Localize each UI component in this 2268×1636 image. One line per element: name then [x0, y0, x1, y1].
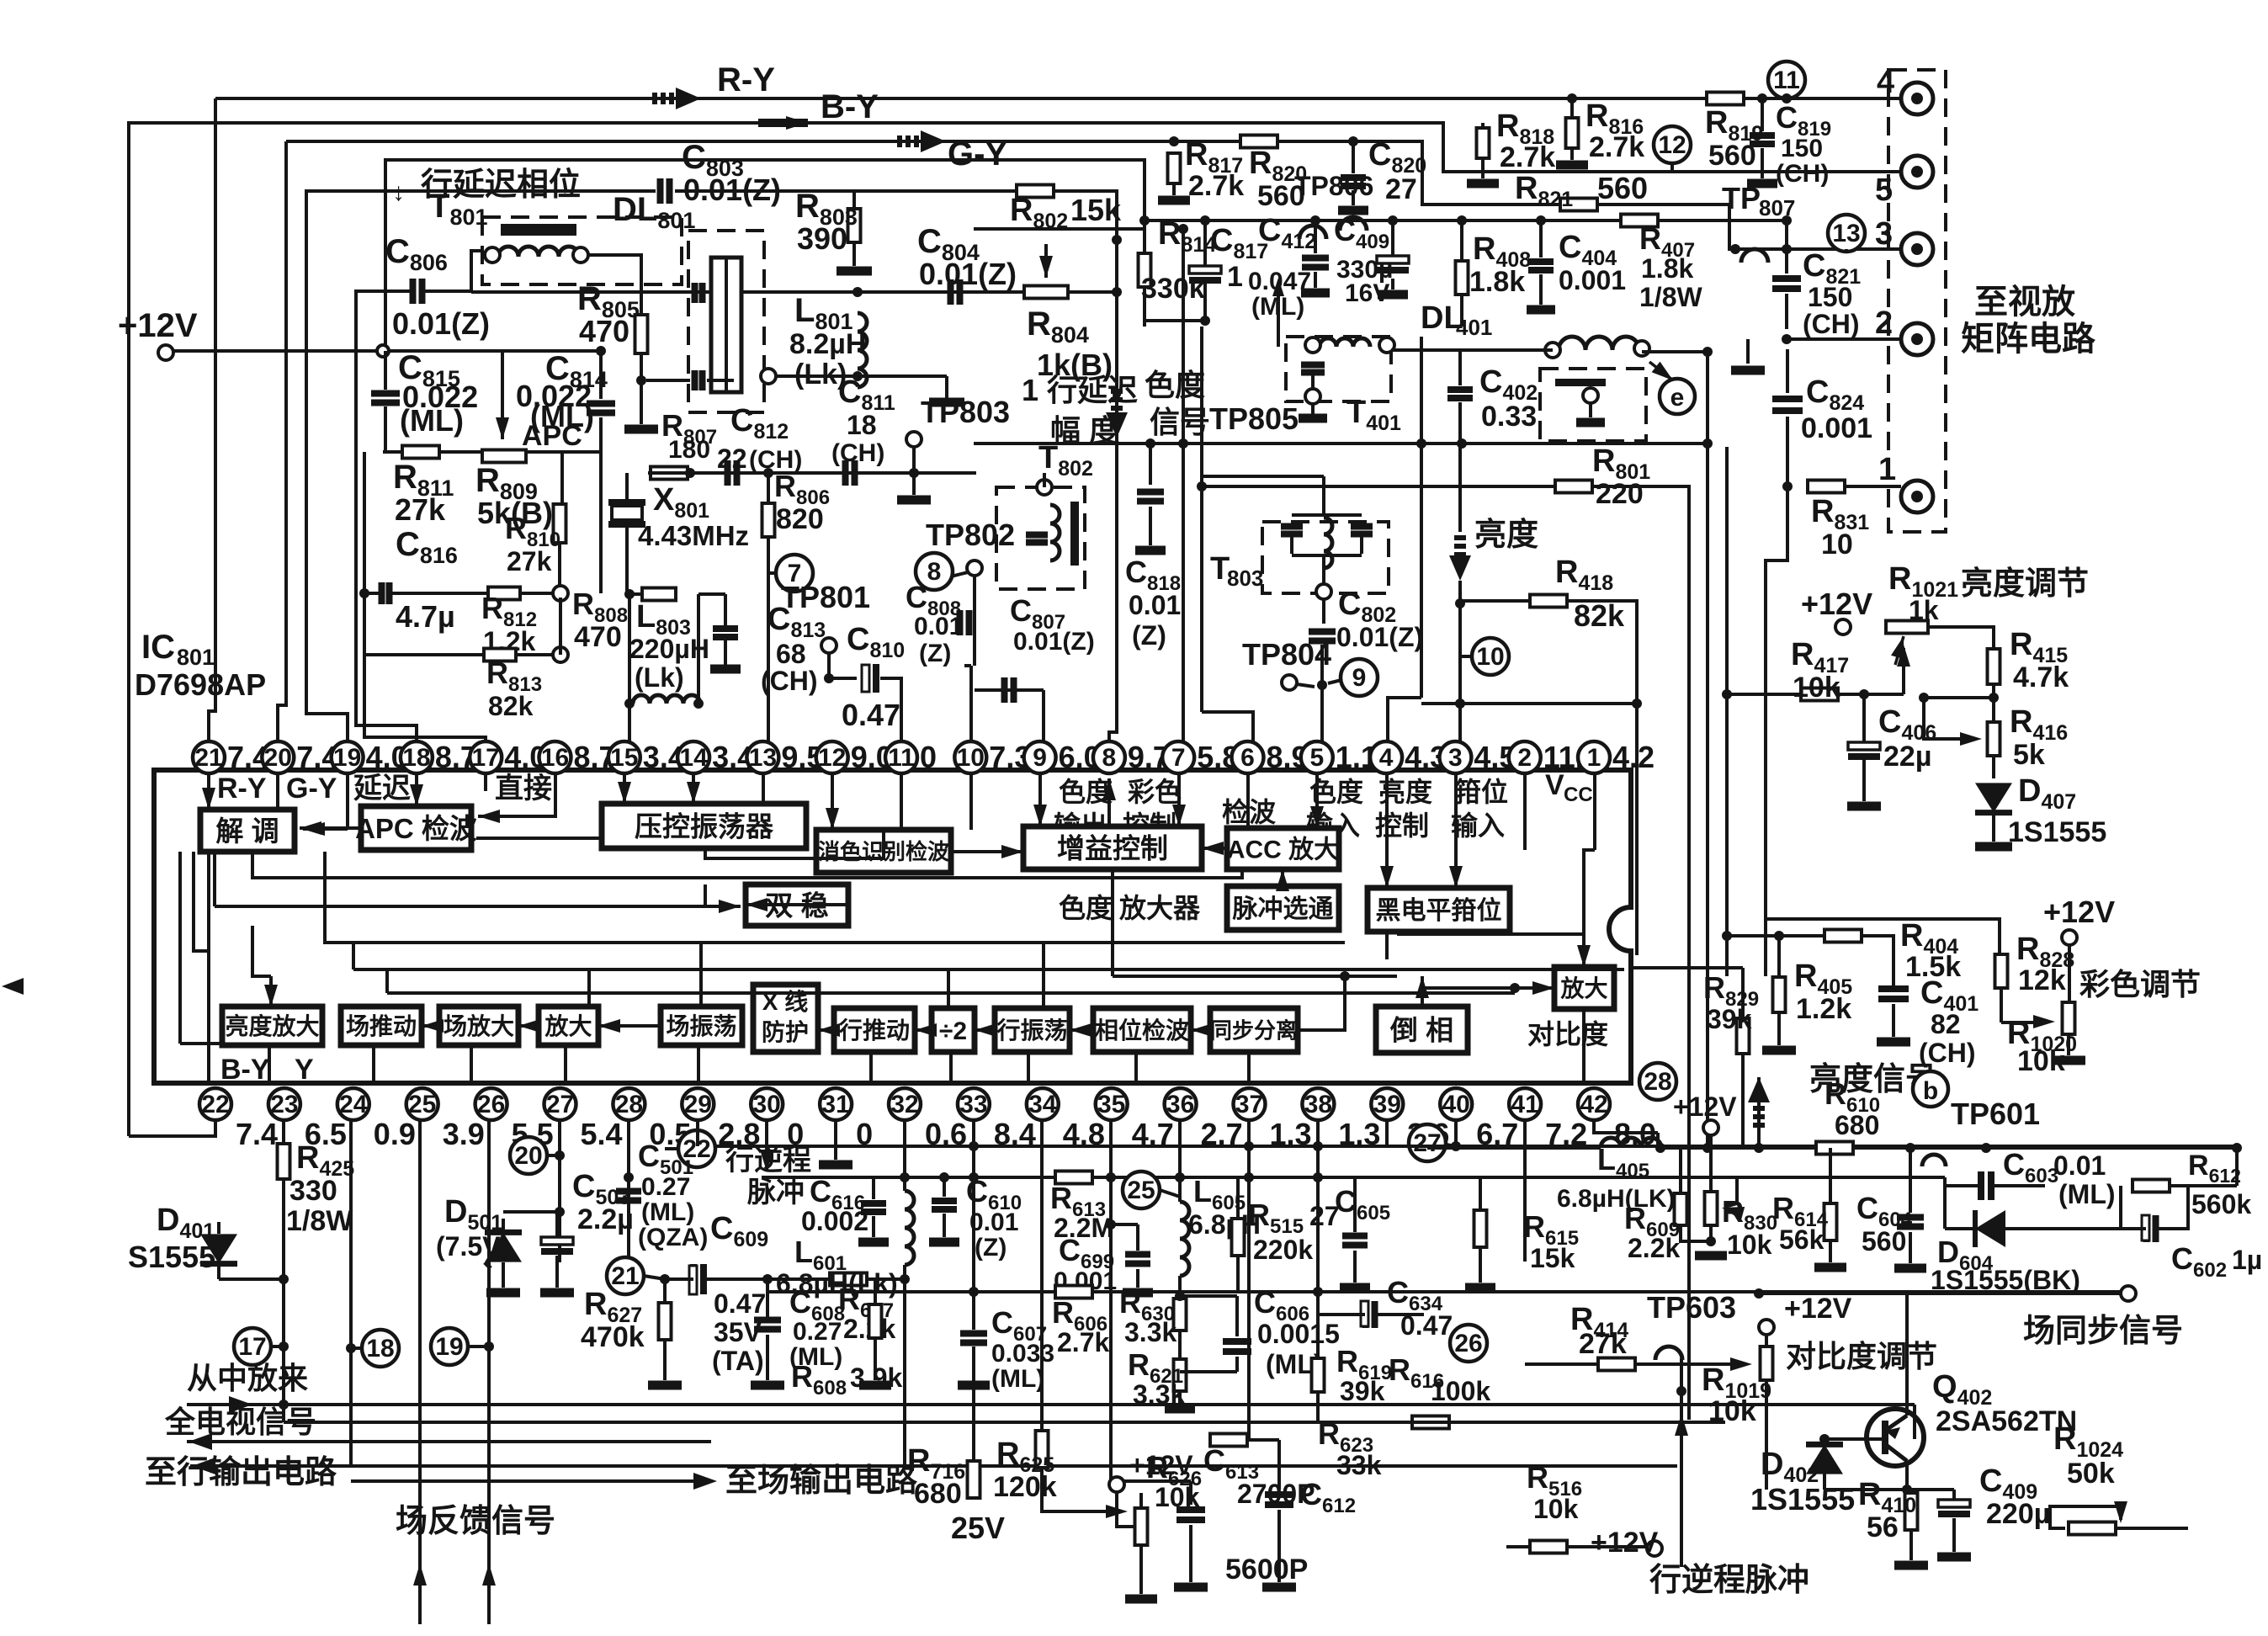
block X-ray protect	[753, 985, 818, 1052]
svg-text:26: 26	[477, 1091, 505, 1118]
wire pin5 acc	[1315, 773, 1319, 828]
wire y1160 internal bus	[1113, 975, 1397, 978]
svg-text:S1555: S1555	[128, 1240, 215, 1274]
node 7	[776, 555, 813, 592]
block vert drive	[341, 1007, 422, 1045]
svg-text:(ML): (ML)	[991, 1365, 1044, 1393]
svg-text:38: 38	[1304, 1091, 1332, 1118]
wire pin34 column	[1040, 1120, 1044, 1431]
resistor R606	[1055, 1286, 1092, 1299]
capacitor C602	[2147, 1215, 2156, 1242]
potentiometer R1021	[1886, 621, 1928, 634]
svg-text:4.2: 4.2	[1612, 740, 1655, 774]
node 27c pin42 link	[1656, 1133, 1660, 1151]
node 22b	[678, 1130, 715, 1167]
svg-text:0.01: 0.01	[2053, 1150, 2106, 1181]
wire amp2 top	[1582, 934, 1585, 967]
transformer T802	[996, 487, 1085, 589]
signal arrow G-Y	[897, 135, 931, 147]
svg-text:场同步信号: 场同步信号	[2023, 1314, 2183, 1349]
wire C802 down to pin5	[1320, 645, 1324, 757]
pin 30 bottom	[751, 1088, 783, 1120]
resistor R619	[1312, 1358, 1325, 1392]
resistor R831	[1808, 481, 1845, 493]
svg-text:+12V: +12V	[1673, 1092, 1737, 1122]
wire T802 stem	[1043, 473, 1046, 487]
wire T803 top	[1322, 476, 1325, 515]
svg-text:行逆程脉冲: 行逆程脉冲	[1649, 1563, 1809, 1598]
wire pin35 column	[1109, 1120, 1113, 1481]
diode D407	[1992, 756, 1995, 778]
transformer T401	[1286, 337, 1391, 401]
wire x1649 step	[1388, 698, 1421, 757]
svg-text:2: 2	[1517, 744, 1532, 772]
svg-text:21: 21	[194, 744, 222, 772]
pin 39 bottom	[1371, 1088, 1403, 1120]
svg-text:控制: 控制	[1375, 810, 1429, 841]
pin 2 top	[1509, 741, 1541, 773]
wire bistable link	[746, 903, 848, 906]
signal arrow R-Y	[652, 93, 686, 104]
svg-text:至场输出电路: 至场输出电路	[725, 1463, 918, 1499]
svg-text:0.01(Z): 0.01(Z)	[1013, 628, 1095, 656]
wire pin17 direct	[484, 773, 487, 791]
capacitor C803	[661, 178, 670, 204]
svg-text:0.47: 0.47	[842, 698, 900, 732]
svg-text:解 调: 解 调	[215, 815, 279, 847]
svg-text:0.01(Z): 0.01(Z)	[392, 306, 490, 341]
wire C808 to pin10	[969, 666, 973, 757]
svg-text:8: 8	[927, 558, 942, 586]
block horiz osc	[995, 1008, 1070, 1052]
svg-text:19: 19	[435, 1333, 463, 1361]
svg-text:4.7µ: 4.7µ	[396, 599, 455, 634]
+12V mid	[1703, 1120, 1718, 1135]
wire brightness col	[1458, 444, 1462, 532]
zener D501	[485, 1232, 522, 1262]
potentiometer R830	[1705, 1192, 1718, 1225]
svg-text:2.2k: 2.2k	[1628, 1233, 1680, 1263]
wire pin39 column	[1385, 1120, 1389, 1146]
svg-text:0.47: 0.47	[714, 1288, 766, 1319]
pin 14 top	[677, 741, 709, 773]
svg-text:25: 25	[408, 1091, 436, 1118]
wire pin25 column	[418, 1120, 422, 1567]
svg-text:+12V: +12V	[2043, 895, 2115, 929]
svg-text:(Z): (Z)	[1132, 620, 1166, 651]
svg-text:+12V: +12V	[118, 307, 198, 344]
svg-text:25: 25	[1127, 1177, 1155, 1204]
pin 8 top	[1093, 741, 1125, 773]
resistor R623	[1210, 1434, 1247, 1447]
wire y347 left	[471, 290, 1117, 294]
svg-text:至行输出电路: 至行输出电路	[145, 1455, 337, 1490]
svg-text:APC: APC	[522, 420, 582, 452]
svg-text:R-Y: R-Y	[717, 61, 775, 98]
svg-text:0.01: 0.01	[914, 613, 963, 640]
capacitor C810	[829, 677, 857, 680]
+12V terminal brightness	[1835, 619, 1851, 635]
pin 18 top	[401, 741, 433, 773]
wire R418 line	[1460, 599, 1530, 603]
resistor R410	[1905, 1493, 1918, 1530]
capacitor C409b	[1938, 1500, 1970, 1507]
svg-text:压控振荡器: 压控振荡器	[635, 810, 774, 842]
resistor R812	[488, 587, 520, 600]
wire internal feedback 4	[353, 968, 1624, 971]
resistor R814	[1139, 253, 1151, 287]
svg-text:TP805: TP805	[1209, 401, 1299, 436]
resistor R805	[635, 315, 648, 353]
svg-text:0.27: 0.27	[641, 1173, 690, 1201]
svg-text:G-Y: G-Y	[948, 135, 1007, 173]
resistor R418	[1530, 595, 1567, 608]
svg-text:14: 14	[679, 744, 708, 772]
svg-text:12: 12	[818, 744, 846, 772]
block killer det	[816, 830, 951, 873]
wire internal feedback 1	[252, 852, 1242, 878]
svg-text:2.7k: 2.7k	[1589, 131, 1644, 163]
wire chroma col x1406	[1182, 229, 1185, 757]
svg-text:18: 18	[847, 410, 877, 440]
svg-text:28: 28	[1644, 1068, 1671, 1096]
svg-text:27k: 27k	[1579, 1328, 1627, 1360]
resistor R627	[659, 1303, 672, 1340]
capacitor C821	[1772, 279, 1801, 289]
resistor R415	[1988, 649, 2000, 684]
wire gain down	[1111, 869, 1114, 976]
svg-text:100k: 100k	[1431, 1376, 1490, 1406]
svg-text:27k: 27k	[395, 492, 446, 527]
svg-text:7.4: 7.4	[236, 1117, 278, 1151]
svg-text:10: 10	[1821, 529, 1853, 560]
wire +12V rail	[173, 349, 601, 353]
wire pin9 gain	[1038, 773, 1042, 826]
svg-text:803: 803	[1227, 566, 1263, 591]
wire C406 arrow up	[1902, 648, 1905, 694]
pin 7 top	[1162, 741, 1194, 773]
capacitor C815	[371, 394, 400, 403]
svg-text:37: 37	[1235, 1091, 1263, 1118]
ground pin31	[834, 1120, 837, 1160]
capacitor C401	[1878, 989, 1909, 999]
wire C807 to pin9	[1042, 690, 1045, 757]
wire apc vco link	[476, 837, 602, 840]
wire G-Y pin20 drop	[278, 141, 286, 741]
svg-text:82k: 82k	[1574, 598, 1625, 633]
svg-text:18: 18	[402, 744, 430, 772]
resistor R630	[1174, 1299, 1187, 1331]
svg-text:3.9: 3.9	[443, 1117, 485, 1151]
wire pin32 column	[903, 1120, 906, 1191]
capacitor C607	[960, 1334, 987, 1343]
svg-text:(TA): (TA)	[712, 1346, 764, 1376]
svg-text:0.01: 0.01	[969, 1208, 1018, 1236]
svg-text:150: 150	[1808, 282, 1852, 312]
block vert amp	[439, 1007, 518, 1045]
svg-text:D7698AP: D7698AP	[135, 667, 266, 702]
svg-text:27: 27	[1413, 1129, 1441, 1157]
inductor L803	[697, 594, 700, 694]
svg-text:0.001: 0.001	[1801, 412, 1872, 444]
node 20	[510, 1137, 547, 1174]
svg-text:0.9: 0.9	[374, 1117, 416, 1151]
node 21b	[607, 1257, 644, 1294]
svg-text:TP803: TP803	[921, 395, 1010, 429]
crystal X801	[608, 502, 645, 524]
svg-text:15k: 15k	[1070, 193, 1122, 227]
svg-text:0.33: 0.33	[1481, 401, 1537, 433]
+12V terminal color	[2062, 930, 2077, 945]
wire pin10 stub	[969, 773, 973, 830]
svg-text:0.002: 0.002	[801, 1206, 868, 1236]
resistor R802	[1017, 185, 1054, 198]
wire C806 to T801	[424, 251, 484, 291]
svg-text:同步分离: 同步分离	[1210, 1017, 1298, 1043]
svg-text:行推动: 行推动	[838, 1017, 910, 1044]
wire bottom feed	[1913, 1405, 1916, 1439]
svg-text:场推动: 场推动	[346, 1013, 417, 1039]
svg-text:1S1555: 1S1555	[1750, 1482, 1855, 1516]
IC IC801 outline	[154, 770, 1631, 1083]
svg-text:17: 17	[472, 744, 500, 772]
pin 11 top	[885, 741, 917, 773]
svg-text:3: 3	[1875, 216, 1893, 252]
wire pin27 column	[558, 1120, 561, 1262]
svg-text:输入: 输入	[1451, 810, 1505, 841]
svg-text:行振荡: 行振荡	[996, 1017, 1067, 1044]
wire TP805 rail	[974, 442, 1708, 445]
svg-text:2.7k: 2.7k	[1057, 1327, 1109, 1357]
svg-text:13: 13	[749, 744, 777, 772]
svg-text:10k: 10k	[1793, 672, 1840, 704]
pin 41 bottom	[1509, 1088, 1541, 1120]
block amp2	[1554, 967, 1614, 1009]
inductor L605	[1180, 1202, 1189, 1276]
delay line DL801 box	[688, 231, 764, 412]
node 11	[1768, 61, 1805, 98]
wire pin22 loop	[129, 1120, 215, 1136]
svg-text:+12V: +12V	[1784, 1293, 1852, 1325]
wire C810 to pin11	[880, 678, 901, 757]
svg-text:5600P: 5600P	[1225, 1554, 1308, 1586]
pin 26 bottom	[475, 1088, 507, 1120]
svg-text:3.3k: 3.3k	[1133, 1379, 1185, 1410]
connector contact 5	[1901, 156, 1933, 188]
wire acc gain link	[1202, 847, 1227, 850]
node 9	[1341, 659, 1378, 696]
svg-text:6.8µH(Lk): 6.8µH(Lk)	[776, 1268, 898, 1299]
svg-text:彩色: 彩色	[1128, 777, 1182, 807]
pin 13 top	[746, 741, 778, 773]
svg-text:10: 10	[1476, 643, 1504, 671]
pin 24 bottom	[337, 1088, 369, 1120]
potentiometer R626	[1135, 1508, 1148, 1545]
svg-text:330: 330	[289, 1175, 337, 1207]
wire block row links bottom	[372, 1045, 375, 1083]
wire pin14 vco	[692, 773, 695, 804]
capacitor C806	[413, 279, 422, 304]
capacitor C812	[728, 460, 737, 486]
svg-text:10k: 10k	[2017, 1045, 2065, 1077]
svg-text:增益控制: 增益控制	[1057, 832, 1168, 863]
node 12	[1654, 126, 1691, 163]
svg-text:820: 820	[776, 503, 824, 535]
wire C803 line right	[675, 191, 1117, 240]
wire bus y1362	[698, 1145, 2237, 1148]
capacitor C807	[975, 688, 1044, 692]
pin 21 top	[193, 741, 225, 773]
wire bus y1713	[187, 1440, 711, 1443]
svg-text:120k: 120k	[993, 1471, 1057, 1503]
svg-text:16V: 16V	[1345, 279, 1389, 307]
svg-text:560: 560	[1862, 1226, 1906, 1256]
pin 35 bottom	[1096, 1088, 1128, 1120]
pin 38 bottom	[1302, 1088, 1334, 1120]
resistor R609	[1675, 1193, 1687, 1225]
svg-text:5.4: 5.4	[581, 1117, 623, 1151]
svg-text:10: 10	[957, 744, 985, 772]
inductor L405	[1601, 1138, 1661, 1148]
wire Q402 collector	[1905, 1313, 1909, 1416]
node 19	[431, 1328, 468, 1365]
pin 3 top	[1439, 741, 1471, 773]
resistor R613	[1055, 1171, 1092, 1184]
pin 4 top	[1370, 741, 1402, 773]
svg-text:至视放: 至视放	[1974, 284, 2075, 321]
svg-text:亮度调节: 亮度调节	[1961, 566, 2089, 602]
wire y1150 rail	[1631, 966, 1743, 969]
svg-text:4: 4	[1877, 65, 1894, 100]
svg-text:色度: 色度	[1059, 777, 1113, 807]
resistor R615	[1474, 1210, 1487, 1247]
resistor R816	[1566, 118, 1579, 148]
wire luma in	[252, 926, 271, 976]
svg-text:10k: 10k	[1533, 1494, 1579, 1524]
capacitor C501	[616, 1192, 641, 1201]
svg-text:TP603: TP603	[1647, 1290, 1736, 1325]
wire pin29 column	[696, 1120, 699, 1146]
capacitor C613	[1176, 1510, 1205, 1520]
svg-text:56k: 56k	[1779, 1224, 1824, 1255]
capacitor C817	[1189, 266, 1221, 274]
svg-text:15: 15	[610, 744, 638, 772]
svg-text:1 行延迟: 1 行延迟	[1022, 373, 1138, 407]
wire pin2 line	[1787, 337, 1901, 341]
svg-text:390: 390	[797, 221, 847, 256]
wire DL401 line	[1391, 348, 1553, 352]
svg-text:1µ: 1µ	[2232, 1245, 2262, 1275]
svg-text:12k: 12k	[2018, 964, 2066, 996]
svg-text:3: 3	[1448, 744, 1463, 772]
wire pin11 stub	[900, 773, 903, 830]
svg-text:27: 27	[546, 1091, 574, 1118]
svg-text:220µH: 220µH	[629, 634, 709, 664]
wire x714 vertical	[599, 452, 603, 593]
wire chroma col x1428	[1200, 327, 1203, 712]
capacitor C412	[1302, 258, 1329, 268]
wire internal feedback 2	[215, 905, 741, 908]
svg-text:(ML): (ML)	[641, 1198, 694, 1226]
pin 28 bottom	[613, 1088, 645, 1120]
svg-text:÷2: ÷2	[939, 1017, 967, 1045]
capacitor C824	[1772, 399, 1803, 411]
svg-text:(Z): (Z)	[919, 640, 951, 667]
resistor R810	[554, 504, 566, 543]
pin 40 bottom	[1440, 1088, 1472, 1120]
svg-text:180: 180	[668, 436, 710, 464]
diode D401	[219, 1277, 284, 1281]
resistor R608	[869, 1304, 882, 1338]
capacitor C608	[754, 1320, 781, 1330]
svg-text:APC 检波: APC 检波	[355, 813, 477, 844]
svg-text:0.27: 0.27	[793, 1318, 842, 1346]
resistor R813	[484, 649, 516, 661]
svg-text:36: 36	[1166, 1091, 1194, 1118]
svg-text:防护: 防护	[762, 1019, 809, 1045]
node 26b	[1450, 1325, 1487, 1362]
svg-text:7: 7	[1171, 744, 1186, 772]
wire L405 line	[1427, 1146, 1601, 1150]
svg-text:1/8W: 1/8W	[1639, 282, 1702, 312]
wire pin7 gain	[1177, 773, 1181, 826]
wire internal left rails	[178, 852, 182, 1044]
pin 29 bottom	[682, 1088, 714, 1120]
node 17	[234, 1328, 271, 1365]
wire bus y1742	[190, 1464, 1677, 1468]
svg-text:Y: Y	[295, 1054, 314, 1086]
svg-text:↓: ↓	[392, 178, 405, 206]
wire y1520 to R607	[768, 1277, 905, 1281]
wire C816 rail	[364, 592, 380, 595]
resistor R404	[1824, 930, 1862, 943]
svg-text:16: 16	[541, 744, 569, 772]
svg-text:B-Y: B-Y	[821, 88, 879, 125]
svg-text:0.01(Z): 0.01(Z)	[1336, 622, 1423, 652]
wire pin22 stem	[214, 1120, 217, 1136]
svg-text:5: 5	[1875, 173, 1893, 208]
resistor R414	[1598, 1358, 1635, 1371]
connector box	[1888, 70, 1946, 532]
svg-text:TP804: TP804	[1242, 637, 1331, 672]
wire pin28 column	[627, 1120, 630, 1292]
pin 10 top	[954, 741, 986, 773]
svg-text:脉冲: 脉冲	[747, 1177, 805, 1208]
capacitor C813	[698, 592, 725, 596]
svg-text:10k: 10k	[1155, 1482, 1200, 1512]
wire horiz chain links	[818, 1028, 834, 1032]
wire R812 rail	[553, 586, 568, 601]
wire R417 line	[1727, 693, 1904, 696]
svg-text:相位检波: 相位检波	[1095, 1017, 1190, 1044]
text TP805b	[1340, 217, 1367, 231]
svg-text:15k: 15k	[1530, 1243, 1575, 1273]
diode D604	[1975, 1210, 2005, 1247]
wire vco killer link	[705, 830, 884, 858]
block phase det	[1093, 1008, 1191, 1052]
capacitor C610	[932, 1201, 957, 1209]
svg-text:24: 24	[339, 1091, 368, 1118]
svg-text:12: 12	[1658, 131, 1686, 159]
wire pin4 clamp	[1385, 773, 1389, 888]
wire pin8 up	[1107, 778, 1111, 826]
resistor R621	[1174, 1359, 1187, 1391]
svg-text:470k: 470k	[581, 1321, 645, 1353]
wire pin23 column	[282, 1120, 285, 1422]
svg-text:(7.5V): (7.5V)	[436, 1231, 509, 1262]
svg-text:1.2k: 1.2k	[1796, 993, 1851, 1025]
svg-text:0.47: 0.47	[1400, 1310, 1453, 1341]
